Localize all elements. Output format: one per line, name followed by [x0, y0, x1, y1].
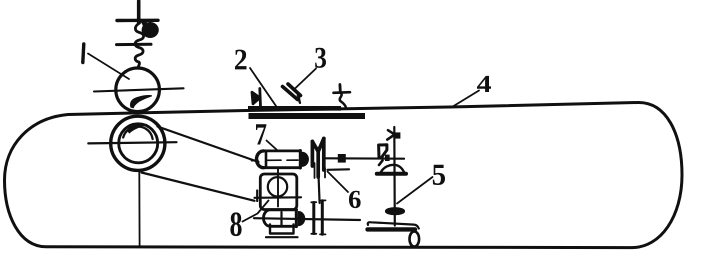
optical axis — [326, 157, 404, 160]
valve stem (top fixture vertical) — [137, 1, 141, 23]
ink mark inside roller — [128, 125, 144, 133]
platform bottom bar — [249, 113, 366, 119]
lower drum of 8 — [263, 210, 296, 227]
support 2 (bracket on platform) — [252, 89, 261, 107]
label 7 — [256, 124, 266, 144]
label 4 — [477, 76, 491, 92]
mirror 3 (hatched plate) — [283, 87, 298, 100]
bracket tick below axis — [379, 161, 383, 166]
shaft down to lower element — [319, 177, 320, 203]
column of unit 5 — [393, 127, 396, 226]
label 3 — [315, 48, 326, 68]
condenser pulley (upper M element) — [312, 139, 323, 178]
squiggle tube to bulb — [135, 23, 143, 68]
leader for label 8 — [243, 201, 269, 222]
base line under feet — [266, 236, 298, 238]
valve crossbar upper — [117, 19, 158, 23]
mirror foot — [298, 96, 300, 103]
belt anchor notch on box — [256, 191, 258, 202]
vertical axis through box — [277, 168, 279, 207]
slider block (filled square on axis) — [338, 154, 346, 163]
clamp on platform right — [338, 85, 341, 92]
holder bracket (D shape) — [379, 145, 387, 158]
drum shell 4 (capsule outline) — [5, 102, 683, 247]
lower drum nub — [299, 212, 305, 226]
belt lower run — [142, 173, 255, 201]
lamp axis dash-dot — [252, 159, 299, 162]
lamp inner wall — [265, 151, 268, 168]
lamp left cap — [257, 151, 264, 168]
chord line through roller — [88, 142, 176, 143]
crosshair circle in box — [268, 177, 287, 196]
pivot star on column — [388, 130, 394, 134]
lens dome (flat-bottom) — [381, 165, 404, 172]
valve knob (filled blob) — [141, 20, 152, 33]
hanging ring at tray end — [410, 231, 420, 246]
thin bar extensions — [315, 163, 326, 178]
label 8 — [230, 212, 241, 236]
photocell box 8 — [260, 174, 297, 210]
leader for label 7 — [267, 141, 278, 151]
tick inside lower drum — [280, 212, 282, 225]
vertical wire below roller — [138, 172, 140, 247]
label 6 — [349, 191, 361, 208]
belt upper run — [158, 127, 259, 163]
leader for label 4 — [452, 91, 479, 108]
lamp 7 (cylinder body) — [264, 151, 301, 168]
chord line through bulb — [94, 88, 184, 91]
label 2 — [235, 50, 247, 70]
tray — [368, 222, 419, 228]
valve crossbar lower — [117, 43, 152, 46]
junction blob on axis — [385, 155, 390, 161]
platform top bar — [248, 106, 341, 111]
roller inner arc — [123, 126, 152, 139]
shaft axis through lower drum — [254, 218, 360, 220]
roller inner circle — [119, 124, 158, 163]
lamp right nub — [302, 153, 308, 167]
small lens (ellipse) on column — [386, 208, 405, 215]
leader for label 3 — [295, 69, 316, 89]
label 5 — [433, 165, 445, 185]
roller outer circle — [111, 116, 165, 170]
label 1 — [83, 44, 84, 63]
horizontal line through box — [255, 196, 302, 199]
lamp right wall — [299, 151, 302, 169]
leader for label 2 — [250, 68, 276, 106]
feet bracket under 8 — [270, 225, 294, 234]
leader for label 5 — [397, 177, 433, 204]
lower drum right wall — [295, 210, 298, 227]
leader for label 6 — [328, 172, 349, 193]
mount line under axis — [328, 168, 350, 171]
lower pulley (double bar element) — [314, 201, 323, 235]
ink mark inside bulb — [131, 96, 152, 108]
bulb 1 (circle) — [116, 68, 160, 112]
leader for label 1 — [88, 54, 129, 80]
